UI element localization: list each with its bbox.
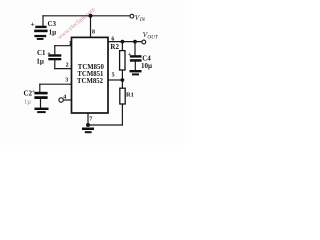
terminal V_OUT bbox=[142, 40, 146, 44]
svg-text:OUT: OUT bbox=[147, 35, 158, 41]
wire: C2 riser bbox=[39, 84, 41, 92]
watermark www.elecfans.com bbox=[56, 6, 96, 41]
wire: pin 4 stub bbox=[63, 99, 71, 101]
svg-text:IN: IN bbox=[139, 17, 146, 23]
svg-text:+: + bbox=[30, 19, 35, 28]
pin 4 open-circle terminal bbox=[59, 98, 63, 102]
wire: pin 1 bbox=[55, 45, 72, 47]
wire: bottom return bbox=[88, 124, 122, 126]
wire: pin 8 riser bbox=[90, 16, 92, 38]
ground (C2) bbox=[35, 108, 49, 110]
svg-text:10µ: 10µ bbox=[141, 62, 152, 70]
wire: C1 bottom drop bbox=[54, 60, 56, 68]
wire: C3 riser bbox=[42, 16, 44, 26]
wire: pin 3 bbox=[40, 83, 72, 85]
svg-text:1µ: 1µ bbox=[36, 58, 44, 66]
svg-text:1µ: 1µ bbox=[24, 98, 31, 105]
svg-text:4: 4 bbox=[63, 95, 66, 101]
svg-text:2: 2 bbox=[66, 62, 69, 68]
IC U1 TCM850/851/852 bbox=[72, 37, 109, 113]
svg-text:1: 1 bbox=[69, 41, 72, 47]
svg-text:6: 6 bbox=[111, 36, 114, 42]
resistor R1 bbox=[120, 88, 125, 104]
resistor R2 bbox=[120, 51, 125, 70]
wire: pin 6 / V_OUT bbox=[108, 41, 142, 43]
ground (C4) bbox=[130, 70, 142, 72]
svg-text:+: + bbox=[128, 52, 132, 58]
junction node: pin7 / ground / return bbox=[86, 123, 90, 127]
terminal V_IN bbox=[130, 14, 134, 18]
svg-text:8: 8 bbox=[92, 29, 95, 35]
wire: C4 ground stub bbox=[134, 62, 136, 71]
wire: R1 top lead / pin5 node riser bbox=[121, 70, 123, 88]
capacitor C3 bbox=[35, 26, 46, 28]
capacitor C2 bbox=[34, 92, 47, 95]
svg-text:1µ: 1µ bbox=[49, 29, 57, 37]
svg-text:TCM852: TCM852 bbox=[77, 78, 104, 85]
wire: pin 7 stub bbox=[87, 113, 89, 125]
pin number labels bbox=[63, 29, 114, 122]
svg-text:R1: R1 bbox=[126, 91, 134, 98]
wire: pin 5 bbox=[108, 79, 122, 81]
junction node: pin6 / R2 bbox=[121, 40, 125, 44]
svg-text:C1: C1 bbox=[37, 49, 46, 57]
svg-text:3: 3 bbox=[65, 78, 68, 84]
wire: C4 riser bbox=[134, 42, 136, 56]
wire: C1 top riser bbox=[54, 46, 56, 55]
ground (C3) bbox=[34, 35, 46, 37]
junction node: pin5 / R2 / R1 bbox=[121, 78, 125, 82]
svg-text:+: + bbox=[47, 51, 51, 57]
wire: R1 bottom lead bbox=[121, 104, 123, 125]
wire: C2 ground stub bbox=[40, 99, 42, 108]
svg-text:+: + bbox=[32, 89, 35, 95]
capacitor C4 bbox=[130, 55, 142, 57]
svg-text:C3: C3 bbox=[48, 20, 57, 28]
svg-text:7: 7 bbox=[89, 117, 92, 123]
svg-text:R2: R2 bbox=[110, 43, 119, 51]
svg-text:5: 5 bbox=[112, 73, 115, 79]
wire: R2 top lead bbox=[121, 42, 123, 51]
wire: top V_IN rail bbox=[43, 15, 130, 17]
junction node: rail / pin 8 bbox=[89, 14, 93, 18]
wire: pin 2 bbox=[55, 68, 72, 70]
junction node: pin6 / C4 bbox=[133, 40, 137, 44]
capacitor C1 bbox=[48, 54, 61, 56]
ground (pin 7) bbox=[82, 128, 94, 131]
